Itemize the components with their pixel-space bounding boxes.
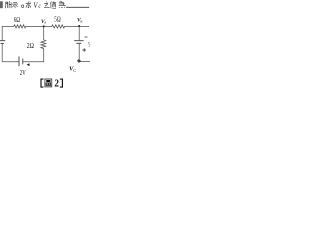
resistor R2 5ohm: [52, 25, 65, 28]
resistor R1 6ohm: [14, 25, 26, 28]
caption bracket left: [41, 79, 44, 87]
text 示: [12, 2, 18, 8]
wire from node A down: [43, 26, 45, 40]
blank underline: [66, 6, 89, 8]
wire bottom mid: [23, 61, 44, 63]
wire below resistor R3: [43, 49, 45, 63]
battery V1 short plate: [1, 42, 4, 44]
svg-text:2: 2: [54, 78, 59, 89]
wire left vertical lower: [1, 44, 3, 62]
wire top middle: [26, 25, 53, 27]
plus sign of capacitor: [82, 48, 86, 52]
text 所: [5, 1, 11, 8]
partial value digit at right edge: [88, 42, 90, 46]
svg-text:C: C: [73, 68, 76, 73]
plus mark at node C: [77, 59, 81, 63]
capacitor C plate bottom: [76, 42, 81, 44]
resistor R3 2ohm vertical: [41, 40, 46, 49]
svg-text:B: B: [80, 19, 82, 23]
battery V2 long plate: [18, 56, 20, 66]
wire bottom left: [2, 61, 19, 63]
wire from node B down: [78, 26, 80, 40]
text 為: [59, 1, 65, 8]
text 。: [22, 5, 24, 7]
text 之: [44, 2, 49, 8]
text 求: [26, 1, 31, 7]
caption bracket right: [60, 79, 63, 87]
battery V1 long plate: [0, 40, 5, 42]
svg-text:2Ω: 2Ω: [27, 42, 34, 50]
wire left vertical: [1, 26, 3, 40]
svg-text:6Ω: 6Ω: [14, 16, 21, 24]
svg-text:5Ω: 5Ω: [54, 16, 61, 24]
svg-text:c: c: [39, 2, 41, 10]
wire bottom right: [79, 61, 90, 63]
caption 圖: [45, 79, 52, 87]
minus sign of capacitor: [85, 36, 88, 38]
node A junction dot: [43, 25, 45, 27]
svg-text:2V: 2V: [20, 69, 26, 77]
capacitor C plate top: [74, 40, 83, 42]
wire below capacitor: [78, 44, 80, 62]
battery V2 short plate: [22, 59, 24, 65]
text 值: [50, 1, 56, 8]
wire top right: [65, 25, 90, 27]
svg-text:A: A: [43, 21, 46, 25]
arrow mark near battery V2: [27, 63, 30, 66]
node B junction dot: [78, 25, 80, 27]
wire top left horizontal: [2, 25, 14, 27]
partial glyph block (cut-off character at top-left): [0, 1, 3, 8]
